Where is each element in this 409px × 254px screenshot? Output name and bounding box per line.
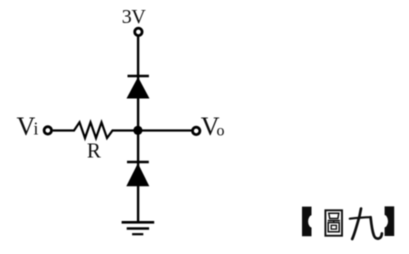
svg-text:3V: 3V: [122, 6, 147, 28]
svg-text:o: o: [217, 122, 225, 139]
svg-text:i: i: [34, 118, 39, 138]
svg-text:R: R: [87, 139, 101, 163]
